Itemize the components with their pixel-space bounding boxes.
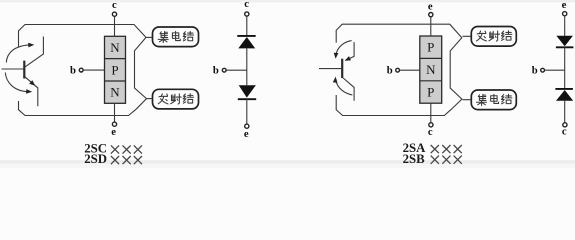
svg-text:e: e	[562, 0, 567, 11]
svg-text:N: N	[110, 40, 120, 55]
svg-text:P: P	[427, 40, 434, 55]
svg-text:P: P	[111, 62, 118, 77]
svg-text:c: c	[244, 0, 249, 10]
svg-text:e: e	[244, 128, 249, 140]
svg-text:c: c	[112, 0, 117, 11]
svg-text:2SB: 2SB	[403, 152, 426, 166]
svg-text:b: b	[387, 65, 393, 77]
svg-text:2SD: 2SD	[84, 152, 107, 166]
svg-text:e: e	[111, 126, 116, 138]
svg-text:c: c	[428, 126, 433, 138]
svg-text:b: b	[70, 64, 76, 76]
svg-text:N: N	[426, 62, 436, 77]
svg-text:c: c	[562, 126, 567, 138]
svg-text:e: e	[428, 1, 433, 13]
svg-text:N: N	[110, 85, 120, 100]
svg-text:b: b	[213, 65, 219, 77]
svg-text:b: b	[532, 65, 538, 77]
svg-text:P: P	[427, 85, 434, 100]
